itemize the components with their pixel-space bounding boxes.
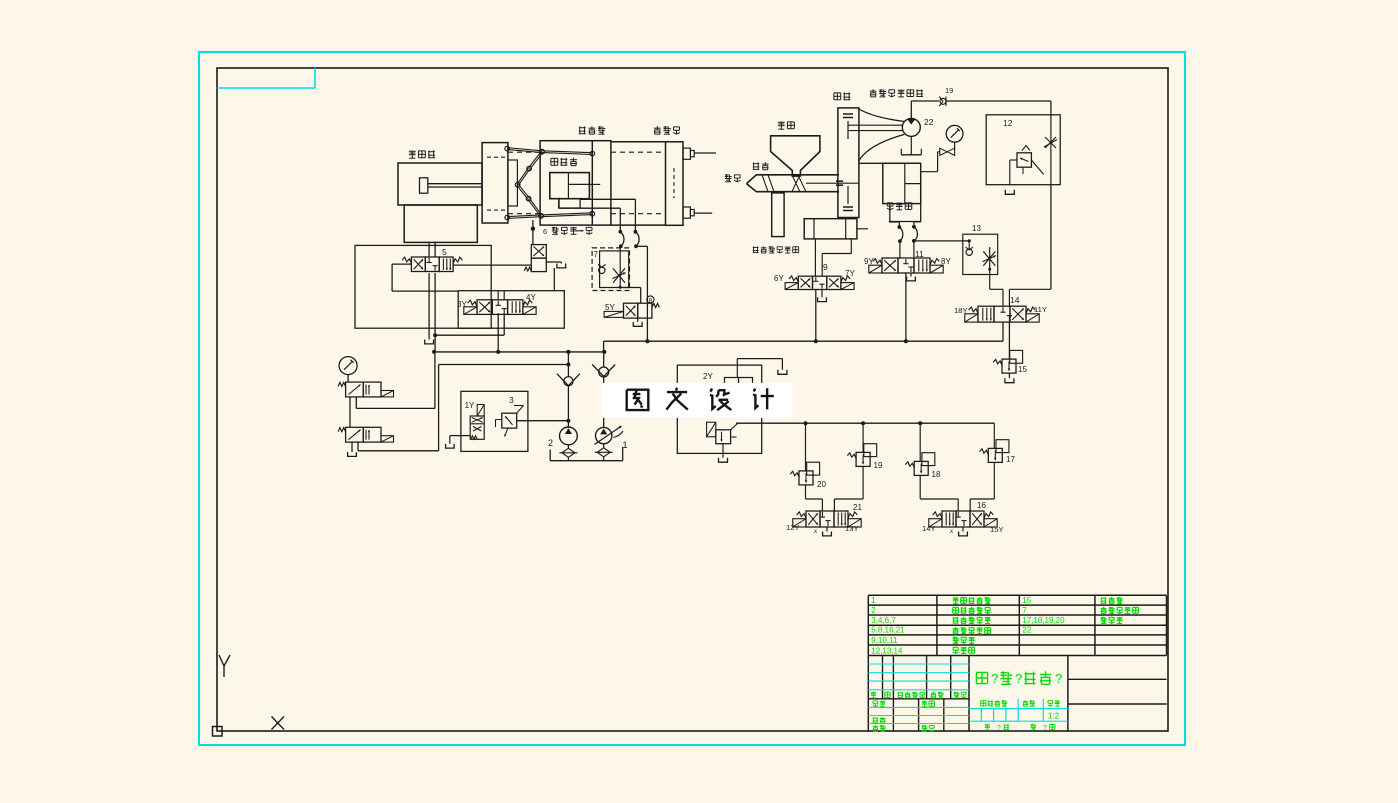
enclosure box around valve 3Y4Y xyxy=(458,291,564,329)
suction manifold xyxy=(550,447,623,461)
hose arc C xyxy=(899,227,903,241)
label 12Y xyxy=(786,523,800,532)
screw hatch xyxy=(792,175,806,192)
clamp base tank box xyxy=(404,205,477,242)
title block main verticals xyxy=(969,656,1068,732)
label 7Y xyxy=(845,269,855,278)
parts row 3 xyxy=(871,616,1122,625)
label zhongliang xyxy=(1023,700,1036,706)
gauge isolator valve lower xyxy=(338,427,393,442)
wire clamp base to valve5 xyxy=(429,242,435,257)
wire gauge branch xyxy=(921,152,940,172)
check valve 19 xyxy=(939,97,946,107)
wire top line to block 12 xyxy=(946,101,1051,115)
reducing valve 19 xyxy=(847,444,876,467)
svg-text:12Y: 12Y xyxy=(786,523,800,532)
clamp cylinder rod xyxy=(428,184,482,187)
tank under lower gauge valve xyxy=(348,442,357,456)
moving crosshead plate xyxy=(482,143,508,223)
wire valve6 to tank xyxy=(546,262,565,268)
wire valve18 top xyxy=(919,423,921,461)
svg-text:18Y: 18Y xyxy=(954,306,968,315)
signature grid verticals xyxy=(868,656,969,699)
label 15 xyxy=(1018,365,1027,374)
tank under block 12 xyxy=(1005,190,1014,195)
check valve 2 xyxy=(592,352,615,427)
injection cylinder lower block xyxy=(890,204,921,222)
label 7 xyxy=(594,250,599,259)
wire valve 14 down xyxy=(1008,322,1010,359)
svg-text:?: ? xyxy=(991,671,998,686)
wire through block 12 xyxy=(1050,115,1052,185)
block 3 outline xyxy=(461,391,528,451)
lower signature grid xyxy=(868,699,969,731)
ejector manifold block xyxy=(559,199,580,208)
drawing title text xyxy=(976,671,1062,686)
hose arc A xyxy=(620,232,624,247)
hose arc B xyxy=(635,232,639,247)
valve 14 directional xyxy=(965,306,1039,322)
solenoid 5Y xyxy=(604,303,623,317)
label 1Y xyxy=(465,401,475,410)
wire valve 11 to bus xyxy=(905,273,907,341)
valve 2Y pilot xyxy=(725,378,753,392)
svg-text:?: ? xyxy=(1055,671,1062,686)
hydraulic motor 22 xyxy=(902,101,920,136)
ejector cylinder xyxy=(550,173,600,199)
pilot solenoid valve 1Y xyxy=(470,405,484,440)
label 3 xyxy=(509,395,514,405)
svg-text:2Y: 2Y xyxy=(703,372,713,381)
parts row 5 xyxy=(871,636,974,645)
carriage cylinder xyxy=(804,219,868,239)
pilot relief in block 13 xyxy=(707,422,738,443)
wire 3Y4Y pressure down xyxy=(497,313,499,352)
svg-text:17,18,19,20: 17,18,19,20 xyxy=(1022,616,1065,625)
reducing valve 20 xyxy=(790,462,819,485)
svg-text:3: 3 xyxy=(509,395,514,405)
svg-text:15: 15 xyxy=(1018,365,1027,374)
svg-text:8: 8 xyxy=(649,297,653,304)
label 5 xyxy=(442,247,447,257)
sheet count labels xyxy=(985,724,1055,732)
label 14 xyxy=(1010,295,1020,305)
svg-text:14Y: 14Y xyxy=(922,524,936,533)
wire injection cyl legs xyxy=(889,222,921,244)
pressure bus lower xyxy=(432,350,606,354)
wire bus from watermark area xyxy=(736,422,806,424)
svg-text:5,8,16,21: 5,8,16,21 xyxy=(871,626,905,635)
svg-text:19: 19 xyxy=(874,461,883,470)
signature labels row xyxy=(871,692,967,698)
label 1 pump xyxy=(623,440,628,450)
svg-text:9,10,11: 9,10,11 xyxy=(871,636,898,645)
clamp cylinder piston xyxy=(420,178,428,193)
svg-text:16: 16 xyxy=(977,501,986,510)
label biaozhunhua xyxy=(922,701,935,707)
svg-text:x: x xyxy=(950,529,953,535)
svg-text:1:2: 1:2 xyxy=(1048,712,1060,721)
tank under valve 9 xyxy=(818,290,827,302)
svg-text:6: 6 xyxy=(543,227,547,236)
label 20 xyxy=(817,480,826,489)
screw shaft xyxy=(806,181,859,185)
block 12 outline xyxy=(986,115,1060,185)
svg-text:?: ? xyxy=(997,725,1001,732)
wire carriage to valve 9 B xyxy=(822,239,851,277)
label 21 xyxy=(853,503,862,512)
label 8Y xyxy=(941,257,951,266)
label bili xyxy=(1048,700,1060,706)
valve 5 directional xyxy=(402,257,462,272)
wire valve5 center ports down xyxy=(429,273,437,352)
wire block12 down xyxy=(1009,185,1051,307)
label 15Y xyxy=(990,525,1004,534)
parts list table grid xyxy=(868,595,1166,655)
safety door link dot xyxy=(531,220,535,245)
title block outer xyxy=(868,656,1166,732)
tank under valve 21 xyxy=(814,527,831,536)
pilot relief in block 12 xyxy=(1010,146,1044,185)
relief valve 15 xyxy=(993,350,1022,373)
label 14Y xyxy=(922,524,936,533)
svg-text:7Y: 7Y xyxy=(845,269,855,278)
wire carriage to valve 9 A xyxy=(814,239,816,277)
black inner frame xyxy=(217,68,1168,731)
pressure bus upper xyxy=(604,339,1003,343)
parts row 4 xyxy=(871,626,1031,635)
svg-text:12: 12 xyxy=(1003,118,1013,128)
wire motor drain xyxy=(901,136,921,154)
label gongyi xyxy=(873,725,886,731)
svg-text:21: 21 xyxy=(853,503,862,512)
wire between gauge valves xyxy=(350,397,356,427)
wire valve17 top xyxy=(993,423,995,448)
enclosure box around valve 5 xyxy=(355,245,491,328)
label shenhe xyxy=(873,717,886,723)
label 6 safety door xyxy=(543,227,592,236)
valve 11 directional xyxy=(869,258,943,273)
wire valve 9 to bus xyxy=(815,290,817,342)
signature grid cyan rows xyxy=(868,664,969,690)
svg-text:2: 2 xyxy=(548,438,553,448)
label zhushegang (injection cyl) xyxy=(887,202,912,209)
wire valve19 bottom xyxy=(834,466,863,511)
svg-text:17: 17 xyxy=(1006,455,1015,464)
check valve inside 7 xyxy=(598,265,606,274)
gearbox xyxy=(838,108,859,218)
wire ejector port A xyxy=(559,198,620,232)
wire block13 top protrusion xyxy=(737,359,787,378)
label 2Y xyxy=(703,372,713,381)
label 18 xyxy=(932,470,941,479)
parts row 6 xyxy=(871,646,974,655)
svg-text:13: 13 xyxy=(972,224,981,233)
scale value 1:2 xyxy=(1048,712,1060,721)
svg-text:5: 5 xyxy=(442,247,447,257)
X axis label xyxy=(272,717,285,730)
svg-text:18: 18 xyxy=(932,470,941,479)
toggle links xyxy=(507,148,592,219)
svg-text:?: ? xyxy=(1043,725,1047,732)
throttle in block 12 xyxy=(1044,137,1057,148)
wire to bus from gauge valve xyxy=(356,352,435,409)
label riqi xyxy=(922,725,935,731)
wire valve6 drain xyxy=(553,268,555,291)
right info cells xyxy=(1068,679,1167,704)
svg-text:3Y: 3Y xyxy=(457,300,467,309)
label 16 xyxy=(977,501,986,510)
svg-text:15Y: 15Y xyxy=(990,525,1004,534)
svg-text:20: 20 xyxy=(817,480,826,489)
wire valve20 top xyxy=(805,423,807,471)
wire through 7 xyxy=(619,245,622,289)
label chilun (gear) xyxy=(834,92,850,100)
pressure gauge injection xyxy=(946,125,963,142)
label 19 xyxy=(945,86,953,95)
wire 7 to valve 8 xyxy=(620,246,641,303)
tank under valve 11 xyxy=(907,273,916,281)
check valve 1 xyxy=(557,352,580,427)
label 9Y xyxy=(864,257,874,266)
label 9 xyxy=(823,262,828,272)
valve 9 directional xyxy=(785,276,854,290)
label 11 xyxy=(915,249,924,259)
crosshead inner box xyxy=(487,157,517,210)
reducing valve 18 xyxy=(905,453,934,476)
wire 3Y4Y ports up xyxy=(498,291,504,300)
tank under valve 8 xyxy=(633,318,642,326)
wire block13 relief drain xyxy=(719,444,728,463)
parts row 1 xyxy=(871,596,1123,605)
tie rod nut top xyxy=(683,148,716,159)
label 8 circled xyxy=(647,296,654,304)
label penzui (nozzle) xyxy=(725,174,741,182)
relief valve 3 xyxy=(496,406,524,437)
svg-text:14: 14 xyxy=(1010,295,1020,305)
wire ejector port B xyxy=(580,199,635,231)
moving platen xyxy=(540,141,611,225)
suction filter 2 xyxy=(559,445,577,458)
wire through 13 xyxy=(988,247,991,271)
tie rod nut bottom xyxy=(683,207,712,218)
clamp cylinder body xyxy=(398,163,482,205)
wire valve5 to valve6 xyxy=(453,264,531,266)
label yusu yeya mada (premold motor) xyxy=(870,89,923,97)
fixed platen xyxy=(666,142,684,226)
mold space rails xyxy=(611,142,666,225)
watermark tuwen sheji xyxy=(603,383,793,418)
wire valve17 bottom xyxy=(970,462,994,511)
wire into 13 xyxy=(914,239,971,242)
toggle pins xyxy=(505,146,595,220)
label hemoxang (clamp cylinder) xyxy=(409,150,435,158)
label liaotong (barrel) xyxy=(753,162,769,170)
valve 8 two-position xyxy=(624,303,660,318)
wire valve18 bottom xyxy=(920,475,958,511)
parts row 2 xyxy=(871,606,1138,615)
svg-text:7: 7 xyxy=(1022,606,1027,615)
svg-text:x: x xyxy=(814,529,817,535)
wire valve20 bottom xyxy=(806,485,823,511)
wire valve19 top xyxy=(862,423,864,452)
tank under valve 15 xyxy=(1005,373,1014,383)
svg-text:1Y: 1Y xyxy=(465,401,475,410)
datum corner square xyxy=(213,727,223,737)
check valve inside 13 xyxy=(966,241,974,256)
svg-text:?: ? xyxy=(1015,671,1022,686)
label 6Y xyxy=(774,274,784,283)
svg-text:9: 9 xyxy=(823,262,828,272)
gauge isolator valve upper xyxy=(338,382,393,397)
svg-text:7: 7 xyxy=(594,250,599,259)
tie bar dashes xyxy=(508,152,665,214)
bus riser xyxy=(603,341,605,352)
label 4Y xyxy=(526,293,536,302)
valve 21 directional xyxy=(793,511,861,527)
one-way throttle 7 outer box xyxy=(592,248,629,291)
tank under valve5 xyxy=(425,340,434,344)
wire hoses to valve 11 xyxy=(900,241,914,258)
pump 2 fixed xyxy=(560,427,578,445)
svg-text:2: 2 xyxy=(871,606,876,615)
Y axis label xyxy=(219,655,230,677)
carriage support column xyxy=(772,193,784,237)
wire gauge to valve xyxy=(347,375,349,383)
valve 16 directional xyxy=(929,511,997,527)
svg-text:3,4,6,7: 3,4,6,7 xyxy=(871,616,896,625)
wire hose B to bus xyxy=(636,246,647,341)
label dingmoban (fixed platen) xyxy=(654,126,680,134)
svg-text:1: 1 xyxy=(871,596,876,605)
label 2 pump xyxy=(548,438,553,448)
pressure gauge left xyxy=(339,357,357,375)
svg-text:11Y: 11Y xyxy=(1034,305,1047,314)
label 22 xyxy=(924,117,934,127)
label 11Y xyxy=(1034,305,1047,314)
valve 6 safety gate valve xyxy=(524,245,546,272)
barrel with nozzle xyxy=(747,175,840,192)
wire lower gauge valve out xyxy=(358,365,439,451)
suction filter 1 xyxy=(595,444,613,457)
scale block cyan grid xyxy=(969,699,1068,721)
wire to check valve 1 top xyxy=(439,363,571,367)
svg-text:15: 15 xyxy=(1022,596,1031,605)
hose connection dots xyxy=(618,230,638,248)
lower pressure bus xyxy=(804,421,995,425)
svg-text:9Y: 9Y xyxy=(864,257,874,266)
throttle inside 13 xyxy=(983,251,996,265)
wire 3Y4Y tank link xyxy=(435,313,504,335)
shutoff valve xyxy=(940,142,955,155)
throttle inside 7 xyxy=(612,268,625,282)
wire relief3 out xyxy=(517,419,571,423)
wire 13 to valve 14 xyxy=(990,269,1003,306)
label jieduanbiaoji xyxy=(981,700,1008,706)
label 10Y xyxy=(954,306,968,315)
wire valve 14 to bus xyxy=(1002,322,1004,341)
label zhushe zuoyi donggang xyxy=(753,246,799,253)
svg-text:22: 22 xyxy=(1022,626,1031,635)
svg-text:22: 22 xyxy=(924,117,934,127)
label dingchugang (ejector cylinder) xyxy=(551,158,577,166)
svg-text:6Y: 6Y xyxy=(774,274,784,283)
tank under valve 16 xyxy=(950,527,967,536)
svg-text:8Y: 8Y xyxy=(941,257,951,266)
one-way throttle 7 inner xyxy=(600,251,629,288)
pump 1 variable xyxy=(595,426,624,445)
label 3Y xyxy=(457,300,467,309)
label 13Y xyxy=(845,524,859,533)
valve 3Y 4Y directional xyxy=(464,300,536,315)
hopper xyxy=(771,136,820,176)
svg-text:5Y: 5Y xyxy=(605,303,615,312)
wire valve5 left port xyxy=(392,264,458,291)
cyan title tab top-left xyxy=(217,68,315,88)
hose arc D xyxy=(914,227,918,241)
wire motor to top line xyxy=(911,100,939,102)
svg-text:4Y: 4Y xyxy=(526,293,536,302)
cyan border frame xyxy=(199,52,1185,745)
motor bell curves xyxy=(858,109,904,162)
injection cylinder xyxy=(859,163,921,203)
svg-text:13Y: 13Y xyxy=(845,524,859,533)
label 17 xyxy=(1006,455,1015,464)
label liaodou (hopper) xyxy=(778,121,794,129)
one-way throttle 13 box xyxy=(963,224,998,275)
label sheji (design) xyxy=(873,701,886,707)
motor shaft lines xyxy=(848,125,903,130)
label 19b xyxy=(874,461,883,470)
wire block3 drain xyxy=(446,436,471,449)
label yimogang (moving cylinder) xyxy=(579,126,606,134)
block 13 outline xyxy=(677,365,761,453)
label 12 xyxy=(1003,118,1013,128)
reducing valve 17 xyxy=(979,440,1008,463)
svg-text:12,13,14: 12,13,14 xyxy=(871,646,903,655)
svg-text:19: 19 xyxy=(945,86,953,95)
